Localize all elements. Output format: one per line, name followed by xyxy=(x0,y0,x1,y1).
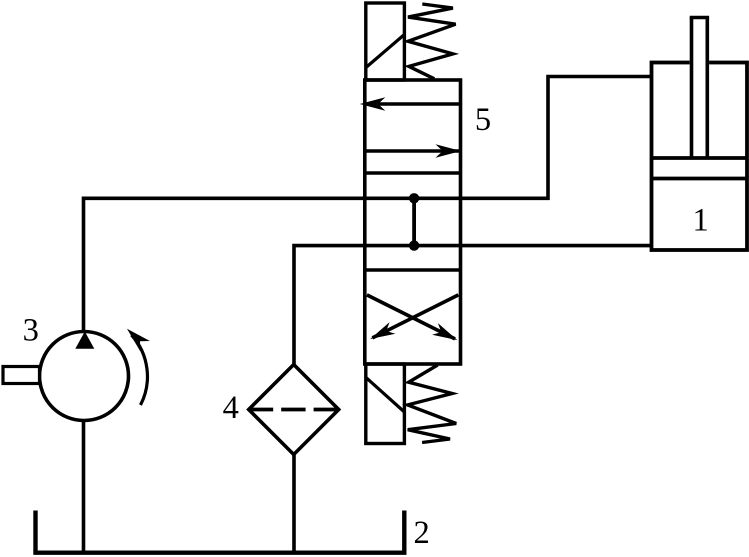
svg-text:5: 5 xyxy=(475,102,491,138)
wire filter to tank xyxy=(292,452,296,552)
pump 3 xyxy=(3,332,129,421)
spring bottom xyxy=(408,365,457,443)
svg-text:3: 3 xyxy=(23,313,39,349)
valve position divider lower xyxy=(365,268,461,272)
valve top position left-flow arrow xyxy=(360,97,461,111)
solenoid actuator top xyxy=(366,3,405,80)
valve position divider upper xyxy=(365,171,461,175)
pump rotation arrow xyxy=(127,329,150,405)
cylinder piston rod xyxy=(690,18,709,158)
valve top position right-flow arrow xyxy=(365,144,461,158)
cylinder 1 body xyxy=(652,63,748,251)
wire filter-to-valve T line xyxy=(294,246,366,366)
valve bottom position cross arrow TR-BL xyxy=(370,295,458,339)
valve 5 body outline xyxy=(365,80,461,364)
cylinder piston upper face xyxy=(652,156,748,160)
valve centre position junction link xyxy=(412,198,416,245)
svg-text:2: 2 xyxy=(413,515,429,551)
cylinder piston lower face xyxy=(652,177,748,181)
junction dot upper xyxy=(409,193,419,203)
valve bottom position cross arrow TL-BR xyxy=(367,295,458,340)
filter 4 xyxy=(249,365,339,455)
solenoid actuator bottom xyxy=(366,364,405,444)
spring top xyxy=(408,4,456,79)
wire valve-to-cylinder cap-end line xyxy=(366,244,652,248)
wire pump suction to tank xyxy=(82,419,86,552)
svg-text:1: 1 xyxy=(692,203,708,239)
wire valve-to-cylinder rod-end line xyxy=(366,77,652,199)
svg-text:4: 4 xyxy=(223,390,239,426)
tank 2 xyxy=(36,511,405,553)
junction dot lower xyxy=(409,240,419,250)
wire pump-to-valve P line xyxy=(84,198,367,333)
